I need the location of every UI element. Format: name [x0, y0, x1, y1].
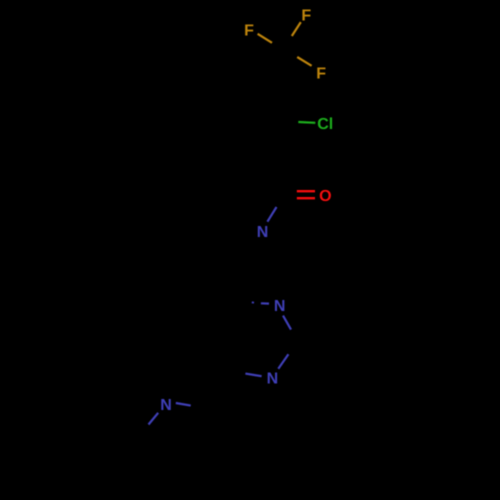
svg-text:N: N [274, 298, 286, 315]
carbonyl double bond C=O lower line [297, 197, 315, 199]
bond N1 to C2 (down-right) [283, 316, 291, 330]
svg-text:N: N [160, 397, 172, 414]
bond stub left of ring nitrogen N3 [245, 374, 261, 377]
svg-text:N: N [267, 371, 279, 388]
second double-bond line tip near N1 [252, 301, 254, 303]
bond C-F to top fluorine [292, 22, 301, 36]
bond C-Cl [298, 121, 315, 124]
svg-text:F: F [301, 7, 311, 24]
bond C-F to lower-right fluorine [297, 57, 311, 66]
bond N3 to C2 (up-right) [278, 354, 288, 368]
double bond stub left of ring nitrogen N1 [261, 302, 269, 305]
carbonyl double bond C=O upper line [297, 190, 315, 192]
bond C-F to left fluorine [258, 34, 272, 43]
svg-text:O: O [319, 188, 331, 205]
svg-text:F: F [244, 22, 254, 39]
bond amide N to carbonyl C [267, 207, 276, 222]
svg-text:F: F [316, 65, 326, 82]
bond amine N right stub [176, 403, 191, 406]
svg-text:N: N [257, 224, 269, 241]
bond amine N down-left stub [149, 413, 159, 425]
svg-text:Cl: Cl [317, 116, 333, 133]
